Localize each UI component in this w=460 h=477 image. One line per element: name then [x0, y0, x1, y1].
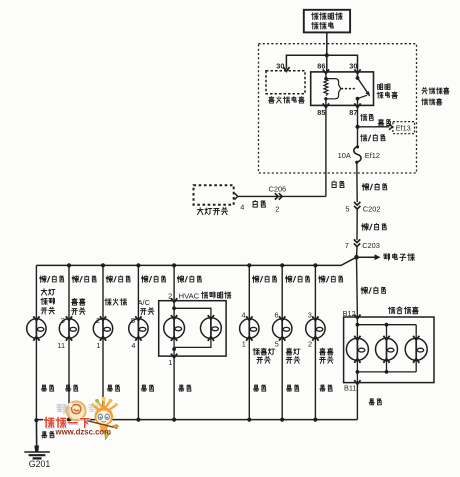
pin 86	[317, 62, 329, 74]
watermark: www.dzsc.com	[55, 427, 112, 436]
node: bus tap b2	[67, 263, 71, 267]
wire: branch to headlamp control switch	[35, 265, 37, 419]
svg-text:4: 4	[240, 202, 244, 211]
node: bus tap b5	[172, 263, 176, 267]
lamp: A/C switch illumination	[129, 316, 148, 340]
wire: meter ground wire	[356, 383, 358, 420]
label: 后雾灯开关	[253, 348, 275, 363]
fuse Ef13 (dashed box)	[393, 122, 415, 134]
engine room fuse box (dashed enclosure)	[259, 44, 417, 173]
svg-text:4: 4	[131, 341, 135, 350]
pin 5	[275, 340, 279, 349]
node: meter bottom rail taps	[356, 370, 389, 374]
label: 棕/白色	[362, 224, 387, 231]
label: 橙色	[360, 114, 373, 121]
node: meter top rail taps	[356, 323, 389, 327]
pin 2	[308, 340, 312, 349]
svg-text:30: 30	[349, 62, 357, 71]
wire: battery feed down from power box	[326, 32, 328, 55]
label: 黑色 (b2)	[65, 385, 77, 391]
HVAC control panel box	[159, 298, 226, 356]
connector C203 pin 7	[345, 239, 380, 250]
label: 棕/白色 (meter feed)	[361, 287, 386, 294]
svg-text:Ef13: Ef13	[396, 124, 411, 133]
wire: C206 horizontal run to headlamp switch	[238, 195, 326, 197]
wire: top feed rail inside fuse box	[286, 55, 357, 72]
wire: short drop to distribution node	[356, 247, 359, 257]
label: 紧急开关	[320, 348, 334, 363]
wire: meter internal rails	[357, 317, 416, 383]
pin 5	[131, 316, 135, 325]
node: tee to Ef13	[356, 125, 360, 129]
node: ground bus taps	[34, 418, 317, 423]
connector B12	[343, 309, 361, 319]
svg-text:5: 5	[345, 204, 349, 213]
wire: down to fuse Ef12	[357, 127, 359, 147]
svg-text:1: 1	[168, 358, 172, 367]
label: 棕/白色 (b3)	[106, 276, 130, 283]
connector C202 pin 5	[345, 202, 380, 213]
svg-text:1: 1	[242, 340, 246, 349]
label: 照明继电器	[377, 84, 397, 98]
label: 黑色 (meter)	[369, 399, 381, 405]
connector C206 pin 2	[269, 184, 287, 213]
pin 11	[57, 341, 65, 350]
pin 87	[349, 103, 360, 117]
wire: branch to hazard switch	[314, 265, 316, 419]
label: 棕/白色 (b2)	[72, 276, 96, 283]
fuse Ef12 10A (coil symbol)	[338, 145, 380, 164]
svg-text:2: 2	[308, 340, 312, 349]
label: 黑色 (b1)	[41, 385, 53, 391]
node: HVAC inner tee	[172, 301, 176, 318]
lamp: meter illumination 2	[376, 336, 398, 363]
node: bus tap b6	[247, 263, 251, 267]
wire: branch to audio switch	[68, 265, 70, 419]
relay coil	[324, 72, 341, 106]
label: 棕/白色 (b8)	[319, 276, 343, 283]
wire: brown/white between C202 and C203	[356, 210, 358, 241]
svg-text:B11: B11	[344, 383, 356, 392]
watermark: dzsc.com logo	[57, 397, 120, 440]
wire: branch to ashtray	[102, 265, 104, 419]
wire: ground bus	[36, 419, 357, 421]
label: 棕/白色	[362, 184, 387, 191]
svg-text:87: 87	[349, 108, 357, 117]
label: 组合仪表	[388, 307, 418, 314]
svg-text:7: 7	[345, 241, 349, 250]
power source label box: 任何时候均供电	[304, 10, 350, 33]
label: 棕/白色 (b1)	[40, 276, 64, 283]
label: 棕/白色 (b4)	[141, 276, 165, 283]
svg-text:C206: C206	[269, 184, 287, 193]
label: 黑色 (b4)	[141, 385, 153, 391]
wire: branch to fog lamp switch	[281, 265, 283, 419]
pin 6	[275, 310, 279, 319]
wire: arrow to electronic clock 到电子钟	[357, 253, 415, 260]
label: 大灯控制开关	[41, 289, 55, 314]
label: 烟灰缸	[105, 299, 127, 306]
node: bus tap b4	[136, 263, 140, 267]
svg-text:G201: G201	[29, 459, 51, 469]
pin 85	[317, 103, 329, 117]
svg-text:www.dzsc.com: www.dzsc.com	[55, 427, 112, 436]
ignition relay (dashed box) 点火继电器	[266, 71, 305, 103]
label: HVAC 控制面板, pin 2	[168, 291, 231, 300]
relay actuation (dashed link)	[341, 88, 356, 90]
svg-text:30: 30	[276, 62, 284, 71]
wire: main feed down to combination meter B12	[356, 257, 359, 317]
svg-text:A/C: A/C	[138, 298, 151, 307]
svg-text:85: 85	[317, 108, 325, 117]
lamp: HVAC illumination 2	[201, 315, 222, 341]
pin 1	[242, 340, 246, 349]
pin 1	[96, 341, 100, 350]
wire: orange wire from pin 87	[357, 108, 359, 127]
svg-text:2: 2	[275, 205, 279, 214]
label: 棕/白色 (b7)	[285, 276, 309, 283]
lamp: meter illumination 1	[346, 336, 368, 363]
node: bus tap b3	[101, 263, 105, 267]
svg-text:1: 1	[96, 341, 100, 350]
svg-text:3: 3	[308, 310, 312, 319]
node: bus tap b7	[280, 263, 284, 267]
svg-text:C202: C202	[363, 204, 381, 213]
headlamp switch (dashed box) 大灯开关	[194, 185, 234, 215]
svg-text:5: 5	[275, 340, 279, 349]
pin 4 of headlamp switch	[235, 193, 245, 211]
lamp: audio switch illumination	[59, 316, 78, 340]
lamp: HVAC illumination 1	[164, 315, 185, 341]
lamp: hazard switch illumination	[306, 316, 325, 340]
lamp: meter illumination 3	[405, 336, 427, 363]
label: 发动机室熔丝盒	[422, 88, 450, 105]
pin 2	[96, 316, 100, 325]
pin 30 (relay contact)	[349, 62, 360, 74]
wire: brown/white below fuse	[356, 162, 358, 202]
node: feed rail junction	[325, 53, 329, 57]
pin 3	[308, 310, 312, 319]
lamp: headlamp control switch illumination	[27, 316, 46, 340]
label: 黑色 (b6)	[253, 385, 265, 391]
label: 棕/白色 (b6)	[252, 276, 276, 283]
wire: illumination bus	[36, 257, 356, 265]
label: 白色 (vertical run)	[332, 181, 344, 187]
svg-text:C203: C203	[362, 241, 380, 250]
lamp: ashtray illumination	[93, 316, 112, 340]
label: 橙/白色	[360, 134, 384, 141]
label: 雾灯开关	[286, 348, 300, 363]
relay switch contact	[356, 72, 371, 106]
ground symbol G201	[24, 446, 50, 470]
wire: branch to A/C switch	[137, 265, 139, 419]
wire: white wire from pin 85 down	[325, 108, 327, 197]
pin 3	[61, 316, 65, 325]
svg-text:6: 6	[275, 310, 279, 319]
label: 黑色 (b7)	[286, 385, 298, 391]
svg-text:4: 4	[242, 310, 246, 319]
pin 4	[242, 310, 246, 319]
connector B11	[344, 380, 361, 392]
lamp: fog switch illumination	[273, 316, 292, 340]
wire: branch to rear fog lamp switch	[248, 265, 250, 419]
label: 白色 (C206 wire)	[253, 201, 265, 208]
svg-text:86: 86	[317, 62, 325, 71]
label: 黑色 (b5)	[179, 385, 191, 391]
node: bus tap b8	[313, 263, 317, 267]
label: A/C 开关	[138, 298, 154, 315]
label: 声音开关	[72, 298, 86, 314]
combination meter box 组合仪表	[344, 317, 434, 383]
lighting relay box	[311, 72, 374, 106]
svg-text:Ef12: Ef12	[365, 151, 380, 160]
watermark: 维库一下 red text	[44, 418, 89, 429]
lamp: rear fog switch illumination	[240, 316, 259, 340]
wire: HVAC to ground bus	[173, 356, 175, 420]
svg-text:10A: 10A	[338, 151, 351, 160]
wire: drop to ground G201	[35, 420, 37, 450]
label: 棕/白色 (b5)	[177, 276, 201, 283]
pin 30 (ignition relay)	[276, 62, 289, 72]
wire: branch to HVAC control panel	[173, 265, 175, 300]
wire: HVAC inner loop	[172, 308, 211, 356]
svg-text:11: 11	[57, 341, 65, 350]
pin 1 (HVAC out)	[168, 354, 177, 367]
pin 4	[131, 341, 135, 350]
label: 黑色 (b8)	[320, 385, 332, 391]
label: 黑色 (ground wire)	[42, 431, 54, 437]
svg-text:HVAC: HVAC	[179, 291, 200, 300]
wire: purple branch to Ef13	[358, 124, 393, 130]
node: illumination feed junction	[354, 255, 359, 260]
label: 黑色 (b3)	[107, 385, 119, 391]
label: 紫色	[378, 119, 391, 126]
